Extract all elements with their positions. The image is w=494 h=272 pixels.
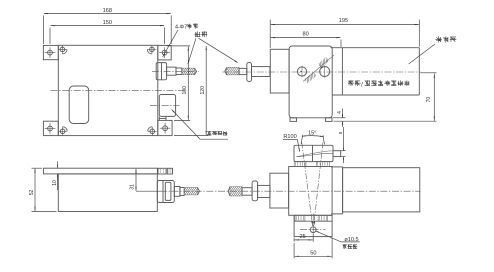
- front view right tab box 1: [158, 168, 166, 174]
- label shade tube (zhe guang tong): [435, 36, 456, 42]
- leader for mounting hole: [316, 231, 342, 242]
- dimension 52: [34, 169, 36, 211]
- leader for R100: [297, 139, 299, 151]
- dimension 120: [205, 46, 207, 135]
- plan view corner tab bottom-right: [158, 120, 172, 135]
- dimension 25 extension lines: [293, 238, 295, 242]
- side view fiber small cylinder: [239, 68, 247, 74]
- label mounting hole (an zhuang kong): [343, 244, 358, 249]
- front view right tab box 2: [167, 168, 172, 174]
- side view axis centerline: [222, 71, 421, 73]
- bottom view barrel: [343, 168, 420, 212]
- vertical centerline through hole: [312, 214, 314, 238]
- dimension 15 degrees arc: [302, 136, 324, 137]
- optical path V line right: [314, 143, 323, 226]
- dimension 168: [44, 13, 171, 15]
- tab hole bottom-right: [163, 126, 168, 131]
- front view cable housing: [157, 181, 174, 203]
- bottom view neck top and bottom: [331, 166, 343, 168]
- bottom view foot block: [294, 215, 332, 236]
- tilted plate center line: [312, 145, 314, 161]
- svg-text:10: 10: [52, 180, 58, 186]
- svg-text:25: 25: [299, 234, 305, 240]
- front view axis centerline: [160, 190, 421, 192]
- side view clamp block: [289, 46, 332, 118]
- bottom view fiber nut: [252, 181, 258, 201]
- front view cable hatched section: [184, 187, 197, 195]
- dimension 10: [56, 162, 58, 169]
- plan view fiber connector flange: [156, 63, 166, 80]
- inner hole bottom-left with relief arc: [60, 129, 65, 134]
- side view fiber cylinder: [252, 67, 270, 77]
- svg-text:31: 31: [130, 184, 136, 190]
- svg-text:4-Φ7: 4-Φ7: [175, 25, 187, 31]
- plan view corner tab top-right: [158, 45, 171, 60]
- svg-text:52: 52: [29, 190, 35, 196]
- svg-text:70: 70: [426, 97, 432, 103]
- label cable connector (xian lan cha jian): [207, 131, 227, 136]
- dimension 50: [295, 255, 332, 257]
- label transmitter/receiver lens part: [348, 80, 361, 86]
- front view top plate: [43, 168, 157, 174]
- svg-text:15°: 15°: [308, 131, 316, 137]
- front view body: [58, 174, 157, 212]
- dimension 120 extension line bottom: [174, 135, 208, 137]
- bottom view tilted plate assembly: [294, 145, 333, 161]
- side view tube bottom edge: [332, 94, 419, 96]
- dimension 80: [271, 37, 341, 39]
- bottom pads with hatch left: [295, 215, 305, 221]
- side view tube joint line: [341, 48, 343, 95]
- dimension 150 extension lines: [49, 28, 51, 45]
- side view screw circle left: [297, 67, 306, 76]
- leader for cable connector: [172, 110, 201, 140]
- inner hole bottom-right with relief arc: [150, 129, 155, 134]
- front view cable housing recess: [165, 182, 171, 200]
- svg-text:150: 150: [103, 20, 112, 26]
- dimension 70: [433, 74, 435, 121]
- mounting hole phi 10.5: [310, 227, 316, 233]
- leader for shade tube: [409, 44, 435, 64]
- plan view fiber connector tip: [176, 68, 182, 75]
- side view block foot right: [326, 118, 333, 122]
- inner hole top-right with relief arc: [150, 47, 155, 52]
- plan view lower cable block: [159, 95, 175, 117]
- front view cable tip: [180, 188, 184, 196]
- dimension 4 at block foot: [342, 109, 344, 118]
- dimension 25: [295, 239, 313, 241]
- side view screw hatch patch lower: [304, 72, 316, 84]
- plan view fiber cable hatched section: [182, 68, 195, 75]
- leader to side-view fiber: [199, 38, 238, 62]
- side view tube top edge: [331, 47, 420, 49]
- svg-text:4: 4: [337, 111, 343, 114]
- tab hole bottom-left: [48, 126, 53, 131]
- bottom view barrel joint left edge: [342, 167, 344, 214]
- svg-text:195: 195: [339, 18, 348, 24]
- leader to plan-view fiber: [188, 38, 196, 64]
- side view fiber cable hatched section: [227, 67, 239, 75]
- dimension 31 extension line: [136, 190, 161, 192]
- dimension 80 extension line: [340, 40, 342, 48]
- inner hole top-left with relief arc: [60, 47, 65, 52]
- mounting hole centerlines: [300, 229, 326, 231]
- svg-text:168: 168: [103, 8, 112, 14]
- svg-text:100: 100: [182, 86, 188, 95]
- side view diagonal screw axis: [303, 55, 334, 82]
- bottom view flange: [270, 173, 289, 208]
- foot inner line: [294, 220, 332, 222]
- plan view horizontal centerline: [51, 89, 188, 91]
- bottom view cable hatched section: [230, 187, 242, 196]
- tab hole top-left: [48, 50, 53, 55]
- dimension 195: [271, 24, 419, 26]
- plan view lower block centerline: [150, 105, 180, 107]
- tab hole top-right: [162, 50, 167, 55]
- dimension 100 extension line bottom: [174, 119, 190, 121]
- dimension 15 degrees extension lines: [301, 135, 302, 144]
- side view screw hatch patch upper: [318, 57, 330, 68]
- side view screw circle right: [320, 67, 330, 77]
- tilted plate right tab: [333, 151, 341, 157]
- plan view body outline: [58, 45, 158, 135]
- dimension 31: [135, 169, 137, 191]
- side view tube right edge: [418, 48, 420, 95]
- plan view lower cable block step: [158, 116, 160, 120]
- dimension 195 extension lines: [269, 20, 271, 48]
- label optical fiber (guang xian): [195, 31, 208, 37]
- bottom view clamp block: [289, 167, 332, 216]
- dimension 100: [187, 46, 189, 120]
- side view flange: [270, 49, 289, 93]
- svg-text:120: 120: [200, 86, 206, 95]
- plan view corner tab bottom-left: [43, 121, 58, 135]
- bottom view cable small cylinder: [242, 188, 252, 196]
- plan view corner tab top-left: [43, 45, 58, 59]
- dimension 50 extension lines: [293, 243, 295, 258]
- plan view rounded cutout: [69, 86, 89, 124]
- plan view fiber connector stud: [167, 67, 176, 75]
- top pads with hatch right: [317, 161, 330, 166]
- svg-text:/: /: [361, 82, 363, 89]
- plan view fiber connector centerline: [152, 70, 199, 72]
- leader for 4-07 holes: [163, 30, 178, 57]
- top pads with hatch left: [294, 161, 306, 166]
- dimension 150: [51, 25, 165, 27]
- side view block foot left: [290, 118, 297, 122]
- dimension 52 extension lines: [32, 167, 43, 169]
- dimension 168 extension lines: [42, 15, 44, 44]
- dimension 70 extension lines: [421, 72, 437, 74]
- small dimension at plate right tab: [341, 150, 345, 152]
- bottom pads with hatch right: [318, 215, 328, 221]
- svg-text:50: 50: [310, 250, 316, 256]
- svg-text:80: 80: [302, 32, 308, 38]
- dimension 100 extension line top: [167, 45, 191, 47]
- tilted plate curved lens band: [296, 151, 333, 157]
- optical path V line left: [302, 143, 313, 226]
- side view fiber nut: [247, 63, 252, 82]
- front view cable stud: [174, 187, 180, 197]
- bottom view fiber cylinder: [258, 185, 270, 197]
